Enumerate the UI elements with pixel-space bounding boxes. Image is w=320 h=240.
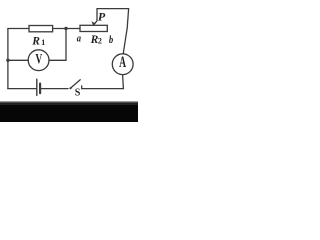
junction node dot (R1/R2/V node) [64, 27, 67, 30]
svg-text:2: 2 [98, 37, 102, 46]
battery negative plate (short thick) [39, 84, 41, 94]
svg-text:b: b [109, 34, 113, 46]
wire top [97, 8, 129, 10]
switch right contact tick [81, 86, 83, 89]
wire bottom right [82, 88, 123, 90]
voltmeter V circle [28, 50, 49, 71]
wiper P arrow shaft [94, 9, 97, 24]
svg-text:R: R [31, 35, 40, 47]
wire top-left horizontal [8, 28, 29, 30]
junction node dot (left V node) [6, 59, 9, 62]
wiper arrowhead [91, 21, 95, 25]
wire left vertical [7, 29, 9, 89]
wire voltmeter left [8, 59, 28, 61]
svg-text:V: V [35, 50, 42, 67]
resistor R1 [29, 26, 53, 32]
ammeter A circle [112, 54, 133, 75]
wire R1 to node [53, 28, 80, 30]
svg-text:A: A [119, 53, 126, 71]
battery positive plate (tall thin) [36, 79, 38, 95]
svg-text:P: P [98, 10, 106, 24]
wire bottom middle [42, 88, 68, 90]
svg-text:a: a [77, 33, 81, 45]
potentiometer R2 track [80, 25, 107, 31]
wire right upper (slight scan slant) [123, 9, 128, 54]
wire voltmeter right [49, 59, 66, 61]
wire right lower [122, 75, 125, 89]
switch S blade [70, 80, 80, 89]
svg-text:1: 1 [41, 38, 45, 47]
svg-text:S: S [75, 88, 81, 99]
black band at bottom [0, 101, 138, 104]
wire bottom left [8, 88, 36, 90]
wire node drop vertical [65, 29, 67, 61]
switch pivot dot [69, 87, 71, 89]
